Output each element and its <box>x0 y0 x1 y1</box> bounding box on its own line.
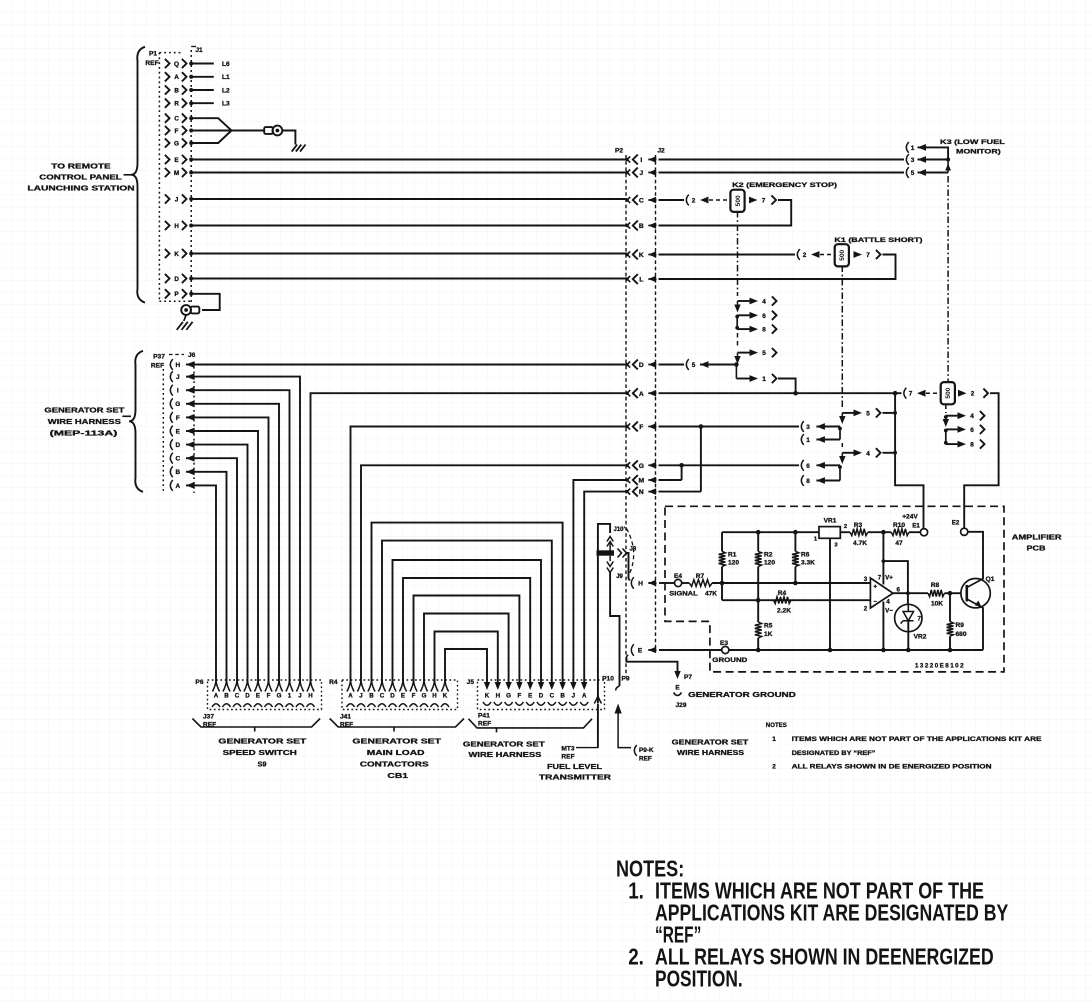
pin G of P37 <box>170 398 172 409</box>
pin H of J5 <box>495 682 501 690</box>
svg-text:MAIN LOAD: MAIN LOAD <box>367 748 426 757</box>
svg-text:1.: 1. <box>628 878 644 904</box>
relay coil K1 500 ohm <box>835 244 849 266</box>
wire lug stem <box>184 315 186 321</box>
svg-text:D: D <box>245 693 250 700</box>
resistor R4 2.2K <box>774 597 792 604</box>
wire P6-H up to P2-A <box>311 393 628 683</box>
svg-text:R4: R4 <box>329 679 338 686</box>
K2 contact 4 <box>738 300 753 302</box>
svg-text:CONTACTORS: CONTACTORS <box>360 760 429 769</box>
svg-text:−: − <box>873 598 877 605</box>
pin E of J41 <box>399 681 406 692</box>
svg-text:GENERATOR SET: GENERATOR SET <box>218 737 307 746</box>
wire J5-J to P2-M <box>573 480 627 683</box>
wire J9 to P9 <box>610 573 619 687</box>
pin J of J5 <box>570 682 576 690</box>
pin H of P6 <box>307 681 314 692</box>
svg-text:P6: P6 <box>195 679 203 686</box>
pin E of J5 <box>527 682 533 690</box>
P9 mate arrow <box>615 704 622 714</box>
pin A of J41 <box>347 681 354 692</box>
wire P1-E to P2-I <box>191 159 627 161</box>
pin E of P6 <box>254 681 261 692</box>
svg-text:F: F <box>412 693 416 700</box>
K2 contact 1 <box>735 365 737 379</box>
svg-text:P1: P1 <box>149 51 157 58</box>
connector pins P2/J2 row L <box>625 277 628 280</box>
svg-text:A: A <box>348 693 353 700</box>
wire P37-J to P6-J <box>197 377 300 683</box>
svg-text:120: 120 <box>764 560 775 567</box>
svg-text:G: G <box>174 140 179 147</box>
svg-text:B: B <box>224 693 229 700</box>
svg-text:5: 5 <box>866 410 870 417</box>
svg-text:DESIGNATED BY “REF”: DESIGNATED BY “REF” <box>792 750 876 757</box>
svg-text:J2: J2 <box>657 148 665 155</box>
svg-text:H: H <box>175 362 180 369</box>
svg-text:R1: R1 <box>728 552 737 559</box>
wire P2-C to K2 pin 2 <box>659 199 685 201</box>
H row pins <box>631 577 633 589</box>
svg-text:P2: P2 <box>615 148 623 155</box>
resistor R1 120 <box>721 532 723 551</box>
svg-text:N: N <box>639 489 644 496</box>
pin B of J5 <box>559 682 565 690</box>
svg-text:D: D <box>174 276 179 283</box>
svg-text:680: 680 <box>956 631 967 638</box>
svg-text:2: 2 <box>803 252 807 259</box>
wire P1-P to lug <box>191 294 220 310</box>
connector pins P2/J2 row N <box>625 490 628 493</box>
wire P37-I to P6-1 <box>197 390 290 683</box>
svg-text:LAUNCHING STATION: LAUNCHING STATION <box>27 184 134 193</box>
svg-text:C: C <box>174 116 179 123</box>
pin A of J5 <box>581 682 587 690</box>
svg-text:B: B <box>639 223 644 230</box>
svg-text:2.2K: 2.2K <box>777 608 791 615</box>
svg-text:R5: R5 <box>764 623 773 630</box>
svg-text:H: H <box>432 693 437 700</box>
svg-text:AMPLIFIER: AMPLIFIER <box>1012 533 1063 542</box>
svg-text:K3 (LOW FUEL: K3 (LOW FUEL <box>940 139 1005 146</box>
K1 contacts 3/1 <box>839 427 841 440</box>
svg-text:P10: P10 <box>602 676 614 683</box>
pin B of P6 <box>223 681 230 692</box>
svg-text:J1: J1 <box>195 47 203 54</box>
pin E of P37 <box>170 426 172 437</box>
svg-text:R9: R9 <box>956 622 965 629</box>
wire J41-J to P2-G <box>361 465 627 683</box>
wire L6 <box>191 63 214 65</box>
pin C of J41 <box>378 681 385 692</box>
svg-text:E: E <box>176 428 181 435</box>
svg-text:K2 (EMERGENCY STOP): K2 (EMERGENCY STOP) <box>732 182 837 189</box>
svg-text:R4: R4 <box>778 590 787 597</box>
svg-text:(MEP-113A): (MEP-113A) <box>50 429 119 438</box>
transistor Q1 <box>961 579 990 608</box>
wire J5-A to P2-N <box>584 492 627 683</box>
svg-text:J: J <box>176 374 180 381</box>
svg-text:M: M <box>639 478 645 485</box>
svg-text:R2: R2 <box>764 552 773 559</box>
svg-text:B: B <box>175 469 180 476</box>
svg-text:B: B <box>560 693 565 700</box>
svg-text:APPLICATIONS KIT ARE DESIGNATE: APPLICATIONS KIT ARE DESIGNATED BY <box>655 899 1008 925</box>
pin C of P37 <box>170 453 172 464</box>
op-amp pin2 wire (R4 row) <box>722 599 870 601</box>
K3 pin 7 <box>904 388 906 399</box>
svg-text:V−: V− <box>885 608 893 615</box>
svg-text:VR1: VR1 <box>824 518 837 525</box>
svg-text:H: H <box>308 693 313 700</box>
wire L2 <box>191 89 214 91</box>
pin G of J5 <box>505 682 511 690</box>
wire K1 pin7 loop to P2-L <box>659 255 896 280</box>
connector pins P2/J2 row C <box>625 198 628 201</box>
svg-text:8: 8 <box>970 442 974 449</box>
connector pins P2/J2 row D <box>625 363 628 366</box>
connector pins P2/J2 row J <box>625 171 628 174</box>
pin G of P6 <box>275 681 282 692</box>
pin Q of P1/J1 <box>165 59 170 68</box>
svg-text:E: E <box>256 693 260 700</box>
wire L1 <box>191 76 214 78</box>
svg-text:K: K <box>485 693 490 700</box>
svg-text:REF: REF <box>145 60 158 67</box>
svg-text:SIGNAL: SIGNAL <box>669 591 698 598</box>
wire G row to contact 6 <box>659 464 800 466</box>
svg-text:A: A <box>639 391 644 398</box>
svg-text:M: M <box>174 170 179 177</box>
pin D of P1/J1 <box>165 274 170 283</box>
svg-text:D: D <box>175 442 180 449</box>
wire C/F/G merge <box>191 118 231 130</box>
wire P37-D to P6-D <box>197 445 248 683</box>
svg-text:R10: R10 <box>893 522 905 529</box>
svg-text:J37: J37 <box>203 714 214 721</box>
svg-text:G: G <box>506 693 511 700</box>
svg-text:I: I <box>177 388 179 395</box>
connector pins P2/J2 row M <box>625 478 628 481</box>
pin G of J41 <box>420 681 427 692</box>
contact 1 stub <box>801 434 803 445</box>
pin C of P6 <box>233 681 240 692</box>
connector J10 <box>607 537 613 542</box>
connector pins P2/J2 row K <box>625 253 628 256</box>
svg-text:7: 7 <box>909 391 913 398</box>
pin F of J41 <box>410 681 417 692</box>
pin 1 of P6 <box>286 681 293 692</box>
ground (C/F/G) <box>292 145 297 152</box>
svg-text:6: 6 <box>806 463 810 470</box>
svg-text:G: G <box>639 463 644 470</box>
K3 contact 5 (wire from P2-J) <box>659 172 905 174</box>
svg-text:8: 8 <box>806 478 810 485</box>
svg-text:D: D <box>539 693 544 700</box>
svg-text:SPEED SWITCH: SPEED SWITCH <box>223 748 297 757</box>
svg-text:F: F <box>267 693 271 700</box>
Q1 emitter wire to ground bus <box>982 607 984 650</box>
wire J41-K to J5-K <box>445 649 487 683</box>
svg-text:GENERATOR SET: GENERATOR SET <box>352 737 441 746</box>
connector shell dashed arc <box>627 529 634 578</box>
svg-text:J: J <box>639 170 643 177</box>
svg-text:C: C <box>175 456 180 463</box>
svg-text:G: G <box>422 693 427 700</box>
svg-text:J: J <box>175 196 179 203</box>
K1 contact linkage (dashed) <box>841 266 843 409</box>
pin M of P1/J1 <box>165 168 170 177</box>
resistor R6 3.3K <box>794 532 796 551</box>
svg-text:MONITOR): MONITOR) <box>956 149 1001 156</box>
K3 pin 2 <box>958 390 967 397</box>
svg-text:P9-K: P9-K <box>639 747 654 754</box>
pin P of P1/J1 <box>165 289 170 298</box>
svg-text:C: C <box>639 198 644 205</box>
wire J41-C to J5-C <box>382 541 552 683</box>
resistor R7 47K <box>682 582 690 584</box>
wire K3-7/A down to E1 <box>895 393 923 529</box>
wire pin7 branch to VR2 <box>883 561 908 604</box>
pin B of P1/J1 <box>165 85 170 94</box>
svg-text:3.3K: 3.3K <box>801 560 815 567</box>
relay coil K3 500 ohm <box>941 382 955 404</box>
resistor R5 1K <box>755 622 762 638</box>
pin D of P6 <box>244 681 251 692</box>
svg-text:WIRE HARNESS: WIRE HARNESS <box>677 748 744 757</box>
connector pins P2/J2 row G <box>625 464 628 467</box>
pin A of P37 <box>170 480 172 491</box>
K2 contact 5 <box>738 352 753 354</box>
svg-text:3: 3 <box>864 576 868 583</box>
label P9-K REF <box>634 745 636 756</box>
connector P6/J37 box <box>208 680 322 710</box>
svg-text:Q1: Q1 <box>986 576 995 583</box>
zener VR2 <box>895 604 922 631</box>
K1 contact 5 common <box>842 412 856 414</box>
svg-text:120: 120 <box>728 560 739 567</box>
svg-text:REF: REF <box>151 363 164 370</box>
P10 pin fork <box>594 696 601 704</box>
svg-text:C: C <box>550 693 555 700</box>
connector pins P2/J2 row B <box>625 224 628 227</box>
svg-text:6: 6 <box>762 313 766 320</box>
K1 contacts 6/8 <box>839 465 841 480</box>
svg-text:J5: J5 <box>467 679 475 686</box>
K1 contact 4 common <box>842 452 856 454</box>
K3 aux contact linkage <box>945 405 947 413</box>
svg-text:A: A <box>582 693 587 700</box>
svg-text:5: 5 <box>911 170 915 177</box>
svg-text:L1: L1 <box>222 74 230 81</box>
K3 contact 1 <box>906 142 908 153</box>
wire M row up to G row <box>659 479 682 481</box>
svg-text:5: 5 <box>762 350 766 357</box>
pin F of P1/J1 <box>165 126 170 135</box>
resistor R10 47 <box>891 529 909 536</box>
svg-text:TRANSMITTER: TRANSMITTER <box>539 773 612 782</box>
pin E of P1/J1 <box>165 155 170 164</box>
svg-text:GENERATOR SET: GENERATOR SET <box>672 738 749 747</box>
svg-text:2.: 2. <box>628 943 644 969</box>
svg-text:K: K <box>174 251 179 258</box>
wire P37-C to P6-C <box>197 458 237 683</box>
svg-text:REF: REF <box>639 756 652 763</box>
svg-text:J: J <box>298 693 302 700</box>
svg-text:13220E8102: 13220E8102 <box>915 663 965 670</box>
svg-text:J: J <box>359 693 363 700</box>
connector J5/P41 box <box>478 680 605 710</box>
svg-text:4.7K: 4.7K <box>853 540 867 547</box>
wire K3-2 loop down to E2 <box>964 393 998 528</box>
svg-text:7: 7 <box>918 616 922 623</box>
svg-text:A: A <box>175 483 180 490</box>
svg-text:1: 1 <box>288 693 292 700</box>
svg-text:GROUND: GROUND <box>712 657 747 664</box>
wire J41-E to J5-E <box>403 578 530 683</box>
svg-text:E: E <box>638 648 643 655</box>
pin F of J5 <box>516 682 522 690</box>
pin H of P37 <box>170 359 172 370</box>
svg-text:J9: J9 <box>616 574 623 580</box>
svg-text:NOTES: NOTES <box>766 722 788 729</box>
svg-text:E: E <box>174 157 179 164</box>
E row pins <box>631 644 633 656</box>
svg-text:J41: J41 <box>340 714 351 721</box>
op-amp pin4 wire to ground <box>882 602 884 651</box>
svg-text:500: 500 <box>735 195 742 206</box>
svg-text:H: H <box>496 693 501 700</box>
op-amp output pin6 wire <box>893 592 928 594</box>
connector pins P2/J2 row F <box>625 425 628 428</box>
svg-text:L2: L2 <box>222 87 230 94</box>
pin D of J5 <box>538 682 544 690</box>
wire P37-G to P6-G <box>197 404 279 683</box>
svg-text:G: G <box>175 401 180 408</box>
VR1 pin3 wire to ground bus <box>829 538 831 650</box>
pin K of J41 <box>441 681 448 692</box>
svg-text:E3: E3 <box>720 640 728 647</box>
svg-text:2: 2 <box>971 391 975 398</box>
svg-text:500: 500 <box>839 249 846 260</box>
svg-text:G: G <box>277 693 282 700</box>
wire A row long <box>659 392 902 394</box>
connector J1 dashed line <box>190 50 192 305</box>
wire E bracket hook to P7 <box>627 655 629 658</box>
svg-text:2: 2 <box>772 763 776 770</box>
svg-text:B: B <box>174 87 179 94</box>
pin C of P1/J1 <box>165 114 170 123</box>
resistor R2 120 <box>757 532 759 551</box>
pin J of P6 <box>296 681 303 692</box>
svg-text:J29: J29 <box>675 702 686 709</box>
svg-text:10K: 10K <box>931 601 943 608</box>
svg-text:H: H <box>174 223 179 230</box>
K3 contact 4 <box>946 415 960 417</box>
pin H of J41 <box>431 681 438 692</box>
pin J of J41 <box>357 681 364 692</box>
svg-text:I: I <box>640 157 642 164</box>
wire K2 pin7 loop to P2-B <box>659 200 792 226</box>
K3 linkage dashed to coil <box>947 176 949 382</box>
svg-text:1: 1 <box>762 376 766 383</box>
svg-text:GENERATOR SET: GENERATOR SET <box>44 406 124 415</box>
svg-text:2: 2 <box>692 198 696 205</box>
svg-text:4: 4 <box>762 299 766 306</box>
svg-text:E: E <box>528 693 532 700</box>
svg-text:500: 500 <box>945 387 952 398</box>
connector P37 (REF) generator set wire harness <box>129 351 143 492</box>
svg-text:+: + <box>873 583 877 590</box>
wire lug to ground <box>282 131 295 145</box>
terminal E3 GROUND <box>722 646 729 653</box>
wire J41-A to P2-F <box>351 427 628 684</box>
connector P1 (REF) to remote control panel <box>131 47 145 303</box>
svg-text:1: 1 <box>806 437 810 444</box>
svg-text:47: 47 <box>895 540 903 547</box>
wire L3 <box>191 102 214 104</box>
pin R of P1/J1 <box>165 99 170 108</box>
K2 contacts 6/8 <box>736 315 738 329</box>
pin A of P6 <box>212 681 219 692</box>
svg-text:WIRE HARNESS: WIRE HARNESS <box>469 750 542 759</box>
svg-text:3: 3 <box>911 157 915 164</box>
svg-text:P: P <box>174 291 179 298</box>
svg-text:P41: P41 <box>478 713 490 720</box>
svg-text:ALL RELAYS SHOWN IN DE ENERGIZ: ALL RELAYS SHOWN IN DE ENERGIZED POSITIO… <box>792 763 992 770</box>
wire P37-E to P6-E <box>197 431 258 683</box>
wire P37-F to P6-F <box>197 417 269 683</box>
pin K of P1/J1 <box>165 249 170 258</box>
terminal lug (P) <box>191 307 200 314</box>
svg-text:1: 1 <box>911 145 915 152</box>
op-amp pin7 wire <box>882 532 884 584</box>
svg-text:ITEMS WHICH ARE NOT PART OF TH: ITEMS WHICH ARE NOT PART OF THE APPLICAT… <box>792 736 1043 743</box>
K3 contact 3 (wire from P2-I) <box>659 159 905 161</box>
pin G of P1/J1 <box>165 138 170 147</box>
svg-text:C: C <box>380 693 385 700</box>
terminal E1 +24V <box>920 529 927 536</box>
svg-text:V+: V+ <box>885 575 893 582</box>
pin J of P37 <box>170 371 172 382</box>
svg-text:2: 2 <box>844 524 847 530</box>
wire P37-H to P2-D <box>197 364 627 366</box>
pin H of P1/J1 <box>165 221 170 230</box>
pin F of P6 <box>265 681 272 692</box>
svg-text:H: H <box>638 581 643 588</box>
wire P2-K to K1 pin 2 <box>659 254 796 256</box>
svg-text:L: L <box>639 277 643 284</box>
connector pins P2/J2 row I <box>625 158 628 161</box>
wire E row / ground bus <box>659 649 722 651</box>
wire J41-G to J5-G <box>424 614 509 684</box>
svg-text:PCB: PCB <box>1027 544 1046 553</box>
svg-text:P9: P9 <box>622 676 630 683</box>
pin I of P37 <box>170 385 172 396</box>
amplifier PCB dashed box <box>665 506 1004 672</box>
ground (P) <box>177 322 183 330</box>
resistor R9 680 <box>949 593 951 621</box>
svg-text:7: 7 <box>866 252 870 259</box>
svg-text:6: 6 <box>970 427 974 434</box>
svg-text:F: F <box>176 415 180 422</box>
svg-text:5: 5 <box>692 362 696 369</box>
pin D of P37 <box>170 439 172 450</box>
pin B of J41 <box>368 681 375 692</box>
K2 contact linkage (dashed) <box>737 211 739 296</box>
pin D of J41 <box>389 681 396 692</box>
